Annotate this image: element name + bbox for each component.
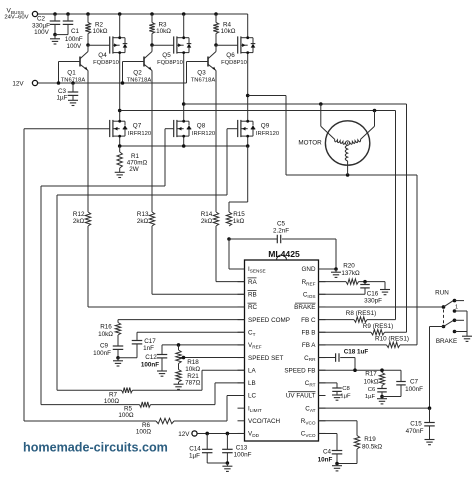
svg-text:1µF: 1µF: [189, 452, 200, 459]
wire switch gang (dashed): [443, 310, 445, 324]
svg-text:FQD8P10: FQD8P10: [93, 60, 119, 66]
capacitor C1: [55, 14, 83, 50]
capacitor C7: [382, 370, 423, 396]
wire phase B row: [184, 103, 407, 105]
svg-text:330pF: 330pF: [364, 298, 382, 305]
wire source row: [118, 144, 250, 148]
svg-text:IRFR120: IRFR120: [128, 131, 151, 137]
resistor R1: [117, 146, 148, 173]
ground under C4: [332, 464, 342, 471]
svg-text:2.2nF: 2.2nF: [273, 227, 289, 234]
resistor R17: [364, 370, 385, 385]
svg-text:C12: C12: [145, 354, 157, 361]
svg-text:2kΩ: 2kΩ: [73, 218, 85, 225]
wire RVCO row: [319, 421, 358, 436]
svg-text:C7: C7: [410, 379, 419, 386]
capacitor C16: [360, 282, 382, 305]
svg-text:GND: GND: [302, 266, 316, 273]
svg-text:FB C: FB C: [301, 317, 316, 324]
transistor Q7: [110, 111, 151, 147]
svg-text:Q9: Q9: [261, 122, 270, 129]
capacitor C5: [229, 220, 336, 243]
ground under C12: [157, 371, 167, 376]
capacitor C3: [57, 81, 79, 101]
svg-text:C17: C17: [144, 338, 156, 345]
capacitor C9: [93, 343, 123, 360]
wire switch common: [466, 311, 468, 336]
svg-text:LA: LA: [248, 367, 257, 374]
ground under C9: [113, 358, 123, 366]
svg-text:12V: 12V: [178, 431, 190, 438]
wire C14-C13 join: [207, 461, 229, 465]
ground under R1: [115, 172, 125, 177]
wire C18 to SPEED FB: [354, 358, 356, 371]
node gate nodes: [86, 43, 218, 47]
wire Q9 gate link: [227, 129, 238, 195]
wire Q7 gate row: [24, 128, 110, 130]
svg-text:10kΩ: 10kΩ: [221, 28, 236, 35]
svg-text:1µF: 1µF: [365, 394, 376, 400]
svg-text:R18: R18: [187, 359, 199, 366]
svg-text:2W: 2W: [129, 166, 139, 173]
wire Q9 gate drop (LA net): [56, 195, 58, 390]
capacitor C13: [222, 433, 251, 463]
svg-text:BRAKE: BRAKE: [294, 304, 315, 311]
svg-text:R8 (RES1): R8 (RES1): [346, 310, 376, 317]
svg-text:C16: C16: [367, 290, 379, 297]
svg-text:100nF: 100nF: [234, 451, 252, 458]
resistor R21: [176, 364, 201, 387]
transistor Q8: [174, 111, 215, 147]
svg-text:C1: C1: [71, 28, 80, 35]
wire Q8 gate link: [165, 129, 174, 186]
transistor Q3: [187, 45, 217, 84]
wire Q8 gate row: [41, 185, 165, 187]
svg-text:R9 (RES1): R9 (RES1): [363, 323, 393, 330]
wire R15 top jog: [229, 146, 248, 212]
capacitor C15: [406, 408, 435, 439]
node 12V terminal (driver supply): [12, 80, 37, 87]
resistor R18: [176, 345, 201, 373]
wire phase A feedback drop: [395, 111, 397, 320]
ground under C13: [222, 463, 232, 471]
svg-text:LB: LB: [248, 380, 256, 387]
svg-text:2kΩ: 2kΩ: [137, 218, 149, 225]
resistor R6: [24, 418, 227, 435]
svg-text:100V: 100V: [34, 29, 50, 36]
wire Q9 gate row: [57, 194, 227, 196]
capacitor C12: [141, 345, 167, 371]
node 12V terminal (logic supply): [178, 431, 197, 438]
wire SPEED SET tap: [179, 356, 245, 360]
resistor R5: [41, 402, 215, 419]
svg-text:12V: 12V: [12, 80, 24, 87]
ground under R21: [174, 384, 184, 389]
ground under C6: [377, 397, 387, 404]
capacitor C17: [118, 332, 156, 358]
resistor R16: [98, 320, 121, 346]
label site watermark: [23, 441, 168, 455]
wire phase C bottom row: [286, 174, 417, 176]
svg-text:100nF: 100nF: [141, 362, 159, 369]
resistor R9: [319, 323, 407, 335]
svg-text:Q3: Q3: [197, 69, 206, 76]
svg-text:MOTOR: MOTOR: [298, 140, 322, 147]
svg-text:137kΩ: 137kΩ: [341, 270, 360, 277]
resistor R8: [319, 310, 396, 322]
wire VREF row: [162, 343, 245, 347]
svg-text:Q8: Q8: [197, 122, 206, 129]
svg-text:100Ω: 100Ω: [118, 412, 134, 419]
label U1 left pins: [248, 266, 291, 438]
resistor R14: [201, 211, 219, 226]
svg-text:C5: C5: [277, 220, 286, 227]
switch S1 contact 4: [453, 330, 467, 334]
wire gate node to Q6: [216, 44, 238, 46]
svg-text:ML4425: ML4425: [268, 249, 300, 259]
svg-text:C2: C2: [37, 16, 46, 23]
svg-text:RUN: RUN: [435, 289, 449, 296]
wire Q1 base drop: [57, 62, 61, 85]
resistor R10: [319, 335, 418, 347]
transistor Q2: [123, 45, 153, 84]
node phase C junction: [246, 94, 250, 98]
svg-text:Q1: Q1: [67, 69, 76, 76]
svg-text:R19: R19: [364, 436, 376, 443]
svg-text:Q5: Q5: [162, 52, 171, 59]
svg-text:10nF: 10nF: [318, 457, 333, 464]
svg-text:C6: C6: [368, 387, 376, 393]
svg-text:R16: R16: [100, 324, 112, 331]
node VBUSS supply terminal: [4, 7, 37, 20]
transistor Q1: [59, 45, 89, 84]
capacitor C2: [32, 14, 60, 36]
switch S1 contact 2: [453, 309, 467, 313]
transistor Q9: [238, 111, 279, 147]
svg-text:RA: RA: [248, 279, 258, 286]
transistor Q4: [93, 14, 127, 111]
wire CT row: [137, 331, 245, 333]
wire LB row: [215, 383, 245, 405]
node phase B junction: [182, 102, 186, 106]
svg-text:24V–60V: 24V–60V: [4, 15, 28, 21]
wire phase C jog: [248, 96, 286, 176]
resistor R19: [337, 436, 382, 464]
wire Q8 gate drop (LB net): [40, 186, 42, 405]
svg-text:Q6: Q6: [226, 52, 235, 59]
node phase A junction: [118, 109, 122, 113]
node rail junction dots: [53, 12, 218, 16]
svg-text:80.5kΩ: 80.5kΩ: [362, 444, 382, 451]
resistor R3: [149, 14, 171, 45]
svg-text:470nF: 470nF: [406, 428, 424, 435]
op-amp U1 ML4425 controller body: [238, 249, 326, 441]
wire VBUSS rail: [38, 13, 248, 15]
ground after R20: [380, 282, 390, 295]
switch S1 RUN: [435, 289, 464, 310]
svg-text:C8: C8: [342, 386, 350, 392]
svg-text:LC: LC: [248, 393, 257, 400]
transistor Q6: [221, 14, 255, 111]
wire gate node to Q5: [152, 44, 174, 46]
svg-text:SPEED FB: SPEED FB: [284, 367, 315, 374]
resistor R13: [137, 211, 155, 226]
svg-text:homemade-circuits.com: homemade-circuits.com: [23, 441, 168, 455]
wire R12 to RC: [88, 226, 245, 307]
ground under C15: [425, 440, 435, 445]
capacitor C8: [319, 383, 352, 400]
svg-text:FB A: FB A: [302, 342, 316, 349]
wire motor lead C: [346, 161, 350, 177]
svg-text:787Ω: 787Ω: [185, 380, 201, 387]
svg-text:100Ω: 100Ω: [104, 398, 120, 405]
svg-text:FQD8P10: FQD8P10: [157, 60, 183, 66]
wire Q2 base drop: [121, 62, 125, 85]
wire phase C feedback drop: [416, 175, 418, 345]
svg-text:100nF: 100nF: [405, 386, 423, 393]
ground under C2: [50, 35, 60, 44]
resistor R2: [85, 14, 107, 45]
wire CAT row: [319, 406, 432, 410]
wire Q3 base drop: [186, 62, 188, 84]
resistor R15: [226, 211, 245, 226]
svg-text:C9: C9: [100, 343, 109, 350]
resistor R20: [319, 263, 386, 285]
svg-text:10kΩ: 10kΩ: [93, 28, 108, 35]
svg-text:100V: 100V: [66, 43, 82, 50]
wire CIOS row: [319, 293, 366, 295]
svg-text:R20: R20: [343, 263, 355, 270]
svg-text:C18 1uF: C18 1uF: [344, 349, 369, 356]
ground under C8: [332, 395, 342, 400]
svg-text:C4: C4: [323, 448, 332, 455]
ground at GND pin: [331, 269, 341, 277]
svg-text:IRFR120: IRFR120: [192, 131, 215, 137]
wire phase A row: [120, 110, 396, 112]
wire BRAKE pole to C15 drop: [430, 327, 444, 409]
wire C5 to GND pin: [319, 239, 338, 271]
resistor R7: [57, 388, 202, 405]
svg-text:10kΩ: 10kΩ: [185, 366, 200, 373]
capacitor C14: [189, 433, 212, 463]
svg-text:BRAKE: BRAKE: [436, 338, 457, 345]
switch S1 BRAKE: [436, 319, 464, 345]
wire R15 to ISENSE: [227, 237, 244, 269]
resistor R12: [73, 211, 91, 226]
wire motor lead B: [361, 109, 377, 140]
svg-text:100nF: 100nF: [93, 350, 111, 357]
resistor R4: [213, 14, 235, 45]
svg-text:C15: C15: [410, 421, 422, 428]
wire 12V row: [38, 82, 187, 84]
svg-text:RB: RB: [248, 292, 257, 299]
capacitor C6: [365, 386, 387, 401]
svg-text:1µF: 1µF: [340, 393, 351, 399]
wire phase B feedback drop: [406, 104, 408, 332]
svg-text:2kΩ: 2kΩ: [201, 218, 213, 225]
wire Q7 gate drop (LC net): [23, 129, 25, 421]
wire LA row: [202, 370, 245, 390]
wire SPEED COMP row: [118, 319, 245, 321]
wire LC row: [227, 396, 245, 422]
svg-text:R17: R17: [365, 371, 377, 378]
wire motor lead A: [319, 102, 335, 139]
capacitor C4: [318, 433, 343, 465]
svg-text:UV FAULT: UV FAULT: [286, 393, 316, 400]
svg-text:1kΩ: 1kΩ: [233, 218, 245, 225]
wire Q3 emitter to R14: [215, 71, 217, 213]
svg-text:FB B: FB B: [302, 329, 316, 336]
motor M1: [298, 121, 369, 165]
svg-text:TN6718A: TN6718A: [191, 78, 216, 84]
svg-text:SPEED SET: SPEED SET: [248, 355, 283, 362]
svg-text:Q7: Q7: [133, 122, 142, 129]
svg-text:1nF: 1nF: [143, 345, 154, 352]
svg-text:SPEED COMP: SPEED COMP: [248, 317, 290, 324]
svg-text:10kΩ: 10kΩ: [98, 331, 113, 338]
ground under C3: [68, 100, 78, 105]
svg-text:Q2: Q2: [133, 69, 142, 76]
svg-text:IRFR120: IRFR120: [256, 131, 279, 137]
svg-text:1µF: 1µF: [57, 95, 68, 102]
wire UV FAULT stub: [319, 395, 326, 397]
svg-text:FQD8P10: FQD8P10: [221, 60, 247, 66]
wire gate node to Q4: [88, 44, 110, 46]
svg-text:10kΩ: 10kΩ: [364, 378, 379, 385]
wire R13 to RB: [152, 226, 245, 294]
wire R14 to RA: [216, 226, 245, 282]
svg-text:10kΩ: 10kΩ: [156, 28, 171, 35]
wire 12V to VDD: [197, 432, 244, 436]
wire Q2 emitter to R13: [151, 71, 153, 213]
wire BRAKE row: [319, 306, 444, 308]
svg-text:100Ω: 100Ω: [136, 429, 152, 436]
wire Q1 emitter to R12: [87, 71, 89, 213]
label U1 right pins: [284, 266, 316, 438]
transistor Q5: [157, 14, 191, 111]
svg-text:RC: RC: [248, 304, 258, 311]
wire SPEED FB row: [319, 368, 402, 372]
capacitor C18: [319, 349, 369, 362]
svg-text:VCO/TACH: VCO/TACH: [248, 418, 281, 425]
svg-text:Q4: Q4: [98, 52, 107, 59]
svg-text:R10 (RES1): R10 (RES1): [375, 335, 409, 342]
ground at switch: [462, 336, 472, 341]
